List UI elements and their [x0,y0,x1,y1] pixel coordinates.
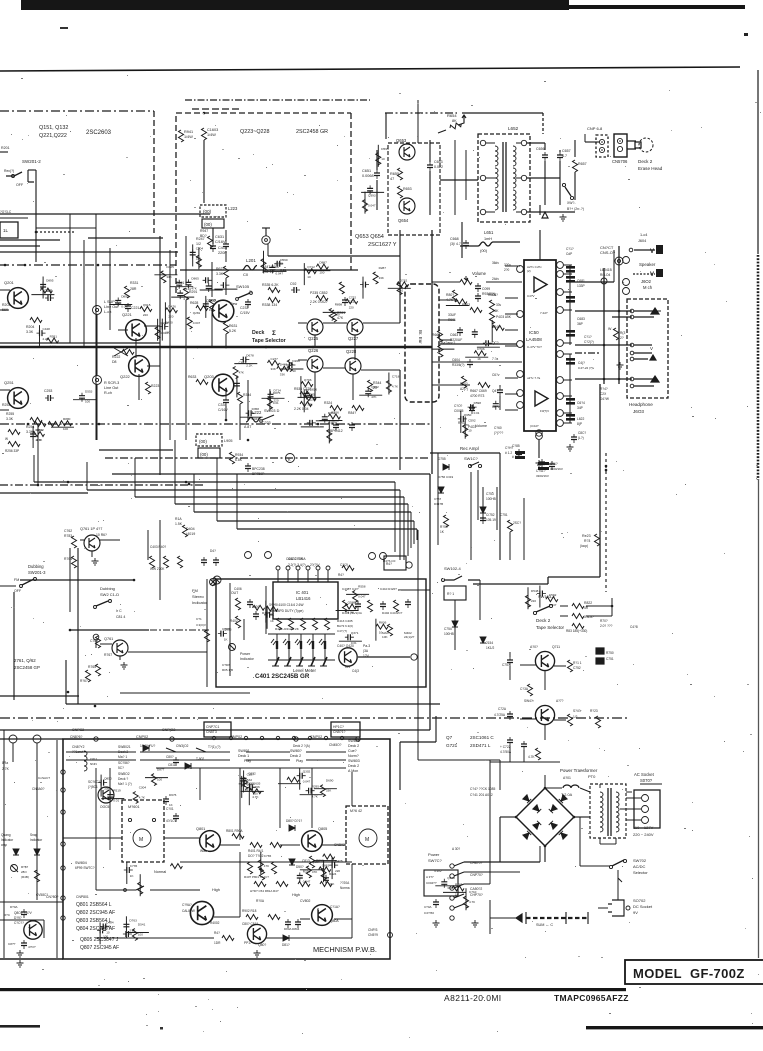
scan speckle noise [247,221,248,222]
block Q223-Q228 dashed box [176,113,351,293]
svg-text:6.8K: 6.8K [235,458,243,462]
svg-text:OFF: OFF [16,183,24,187]
transistor Q654 [399,198,415,214]
svg-text:D891: D891 [121,295,129,299]
svg-text:BPC238: BPC238 [252,467,265,471]
block Q151 right edge [153,111,155,233]
svg-text:C304: C304 [196,246,204,250]
wire selector rows [560,605,568,607]
connector CN5706 solid box [614,134,627,157]
svg-text:BPC412: BPC412 [330,429,343,433]
svg-text:4700 R73: 4700 R73 [470,394,484,398]
svg-text:Q646: Q646 [269,603,277,607]
right border light line lower [758,480,760,958]
wire y214 across [0,213,210,215]
svg-text:R655: R655 [390,172,399,176]
svg-text:R766: R766 [252,785,260,789]
wire thick main line y347 full width [0,346,432,348]
svg-text:R335 6.2K: R335 6.2K [262,283,279,287]
riser x66 for y704 [65,660,67,704]
svg-text:0.047: 0.047 [276,271,284,275]
wire y474 segment [112,473,430,475]
diode D805 pair mid [289,825,295,831]
svg-text:C604: C604 [452,358,460,362]
svg-text:4.7K: 4.7K [36,438,42,442]
MODEL GF-700Z box [625,960,763,984]
capacitor column right of IC [566,266,575,269]
jack pin triangle row3 [651,376,659,382]
svg-text:R(3: R(3 [620,331,625,335]
wires mech top rows [66,751,136,753]
svg-text:R/3-O4: R/3-O4 [600,273,611,277]
svg-text:R SCR-3: R SCR-3 [104,381,119,385]
svg-text:2SC?: 2SC? [513,521,521,525]
svg-text:C656: C656 [536,147,545,151]
svg-text:R413 C405: R413 C405 [337,619,353,623]
svg-text:M: M [139,837,143,843]
svg-text:33K: 33K [166,275,171,279]
svg-text:C304: C304 [139,786,147,790]
capacitor C657 [557,152,563,161]
resistor R801 right of Q801 [232,834,244,839]
wire mid row y862 [180,861,352,863]
svg-text:L622: L622 [577,417,585,421]
svg-text:1K: 1K [224,638,228,642]
svg-text:Speaker: Speaker [639,262,656,267]
svg-text:100: 100 [103,934,108,938]
meter transistor Q403 [339,648,357,666]
svg-text:C428: C428 [43,327,51,331]
transformer secondary coil [616,792,619,812]
svg-text:0.047: 0.047 [193,321,201,325]
svg-text:CNP7C1: CNP7C1 [206,725,219,729]
svg-text:Play: Play [296,759,303,763]
svg-text:0.047: 0.047 [303,780,311,784]
svg-text:(3A: (3A [363,649,369,653]
svg-text:C75?: C75? [502,663,510,667]
wire lower right cluster [509,746,511,762]
svg-text:CAL8?W: CAL8?W [182,909,195,913]
svg-text:R40? P801 TA4C?: R40? P801 TA4C? [244,875,269,879]
svg-text:C403 R40?: C403 R40? [150,545,166,549]
svg-text:2.2K 0.04: 2.2K 0.04 [294,407,309,411]
DC socket symbol [608,900,624,916]
svg-text:H?D? C54 R81A R4?: H?D? C54 R81A R4? [250,889,279,893]
component texture cluster [190,249,196,258]
wires lower cluster [239,404,241,440]
svg-text:R631: R631 [229,324,237,328]
resistor R761 top [183,525,188,537]
svg-text:47K: 47K [371,395,376,399]
capacitor C757 right small squares [596,648,604,664]
svg-text:Q761: Q761 [104,637,113,641]
top bar thin right continuation [560,5,745,9]
wire meter right exit [398,589,430,591]
ground power area [433,920,440,927]
node dot on box B top [203,112,206,115]
svg-text:A?0?: A?0? [530,645,538,649]
svg-text:D865: D865 [191,276,199,280]
svg-text:L652: L652 [508,126,519,131]
svg-text:24dv: 24dv [492,277,499,281]
svg-text:R223: R223 [151,384,159,388]
svg-text:34P: 34P [577,406,584,410]
mech top edge connector circles [94,737,98,741]
wire rows to IC lower pins [432,361,522,363]
capacitor C233 x248 [245,299,251,308]
svg-text:4.7K: 4.7K [446,298,454,302]
svg-text:C277: C277 [271,357,279,361]
corner x600 to selector [548,576,600,578]
svg-text:C233: C233 [240,306,248,310]
svg-text:10: 10 [331,421,335,425]
CN5706 pins [617,138,622,143]
resistor network below Q226 [300,392,312,397]
capacitor row under bus [201,557,207,566]
svg-text:C6?4: C6?4 [577,401,585,405]
long vertical x70 FM [69,548,71,612]
L205 adjust box bottom [196,434,222,446]
svg-text:C8C?: C8C? [578,431,586,435]
svg-text:M?601: M?601 [128,805,140,809]
svg-text:2.7K: 2.7K [2,767,10,771]
bottom-right registration bar [586,1026,763,1029]
svg-text:C4?V: C4?V [527,294,535,298]
svg-text:BA?3 6.3(0): BA?3 6.3(0) [337,624,353,628]
bus wire 7 [237,528,417,530]
svg-text:33K: 33K [280,373,285,377]
ground under Q762 [92,558,99,565]
svg-text:TMAPC0965AFZZ: TMAPC0965AFZZ [554,993,629,1003]
resistor R627 x226 [224,266,229,278]
svg-text:(00): (00) [200,452,208,457]
svg-text:CdP: CdP [566,252,572,256]
component texture cluster [140,307,152,312]
svg-text:R766: R766 [331,411,339,415]
transistor Q851 mech left [98,787,114,803]
wire Q762 connections [80,539,84,541]
svg-text:C752: C752 [349,295,357,299]
left edge box R203-C [0,222,18,238]
svg-text:2761, Q/62: 2761, Q/62 [14,658,36,663]
svg-text:Q226: Q226 [308,348,319,353]
resistor R334 x240 [238,392,243,404]
svg-text:D756 C319: D756 C319 [438,475,454,479]
wire terminal verticals [96,315,98,375]
svg-text:Br. Eur: Br. Eur [418,330,423,344]
svg-text:C710: C710 [469,890,477,894]
svg-text:R293: R293 [303,870,311,874]
resistor R242 top entry [202,128,207,140]
wire dash-dot y458 [105,457,430,459]
svg-text:(00): (00) [203,209,212,214]
svg-text:Deck 2: Deck 2 [290,754,301,758]
motor M601 dashed box [122,800,164,862]
svg-text:C863: C863 [322,863,330,867]
SUM line end ticks [525,912,527,924]
svg-text:C253: C253 [44,389,52,393]
svg-text:D4?: D4? [210,549,216,553]
svg-text:C004??: C004?? [426,881,437,885]
svg-text:(R4B): (R4B) [21,875,29,879]
svg-text:33K: 33K [326,789,331,793]
L652 primary winding [495,146,498,166]
svg-text:cmp: cmp [1,843,7,847]
svg-text:D4?W: D4?W [600,397,609,401]
wire output row 2 [575,310,600,312]
svg-text:2.2K: 2.2K [50,345,56,349]
svg-text:M?6 42: M?6 42 [350,809,362,813]
svg-text:100: 100 [85,400,90,404]
svg-text:Q371: Q371 [351,631,359,635]
wire CN5706 to head [627,140,636,142]
svg-text:R?3: R?3 [584,539,590,543]
svg-text:C631: C631 [215,235,224,239]
wire Q804 connections [300,918,310,920]
wire Q761 conn [100,643,112,645]
svg-text:Normal: Normal [154,870,166,874]
svg-text:8K: 8K [452,119,457,123]
component texture cluster [203,277,212,283]
svg-text:1K1/2: 1K1/2 [486,646,495,650]
resistor R434 pair mid [330,406,342,411]
motor M601 terminals [128,818,131,821]
IC50 opamp triangle lower [535,391,548,406]
svg-text:4?/1CV: 4?/1CV [166,819,178,823]
resistor R40x mid [462,376,467,388]
svg-text:4.7K: 4.7K [392,385,398,389]
ground left edge [17,960,24,967]
resistor R647 top mid [208,236,213,248]
svg-text:J604: J604 [638,239,646,243]
svg-text:Q801 2SB564 L: Q801 2SB564 L [76,902,112,908]
svg-text:SC?56?: SC?56? [118,761,130,765]
mech left column terminals [61,770,65,774]
svg-text:47K: 47K [264,864,269,868]
svg-text:Q203: Q203 [204,374,215,379]
svg-text:33K: 33K [379,276,384,280]
wire Q805 to motor2 [322,844,346,846]
svg-text:D80? D?1?: D80? D?1? [286,819,302,823]
svg-text:Σ: Σ [272,330,276,337]
svg-text:Q653: Q653 [396,138,407,143]
capacitor C653 column [427,162,433,171]
svg-text:CN5706: CN5706 [612,159,628,164]
svg-text:L223: L223 [228,206,238,211]
svg-text:Norm?: Norm? [348,754,359,758]
svg-text:C-4?V ?C?: C-4?V ?C? [527,345,542,349]
svg-text:Ma? 1: Ma? 1 [118,755,127,759]
svg-text:D80A D804: D80A D804 [284,927,300,931]
svg-text:47: 47 [390,177,394,181]
svg-text:C4(3: C4(3 [352,669,359,673]
jack pin triangle row1 [651,308,659,314]
wire into jack row3 [600,378,632,380]
resistor R204 under Q201 [30,318,42,323]
svg-text:3.3K: 3.3K [26,330,34,334]
svg-text:Power: Power [240,652,251,656]
resistor R238 below [230,452,235,464]
svg-text:1K: 1K [477,357,481,361]
resistor R601 column [490,300,495,312]
svg-text:SW4?r: SW4?r [524,699,535,703]
svg-text:Selector: Selector [633,870,648,875]
component texture cluster [493,401,499,410]
resistor R806 row lower [246,915,258,920]
svg-text:220: 220 [531,599,536,603]
svg-text:Q654: Q654 [398,218,409,223]
svg-text:A2(?): A2(?) [460,387,468,391]
svg-text:0.047: 0.047 [549,603,557,607]
capacitor C712 3300 below IC [538,462,549,465]
svg-text:R765: R765 [88,665,96,669]
wire transformer bottom leads [599,838,601,844]
wire vertical from R242 down to L223 [203,140,205,203]
svg-text:C?1A?: C?1A? [330,905,340,909]
bus right droppers [394,482,396,552]
wire bridge bottom down [544,846,546,862]
svg-text:2SC1627 Y: 2SC1627 Y [368,242,397,248]
wire Q403 out right [358,656,410,658]
svg-text:CN5A0?: CN5A0? [32,787,45,791]
svg-text:0.047: 0.047 [121,305,129,309]
resistor R823 right [595,534,600,546]
svg-text:LB1416: LB1416 [296,596,311,601]
svg-text:D8: D8 [112,360,117,364]
IC401 LB1416 box [273,582,338,619]
AC socket pins [642,795,649,802]
svg-text:R255: R255 [6,412,14,416]
svg-text:R324: R324 [324,401,332,405]
svg-text:C/15V: C/15V [240,311,250,315]
transformer box outline [590,784,626,838]
transformer PT701 primary coil [600,792,603,812]
svg-text:High: High [212,888,220,892]
rec amp box outline [430,452,500,454]
capacitor C253 [45,395,54,401]
IC50 bottom pin [536,433,543,440]
svg-text:C?0A: C?0A [424,905,432,909]
svg-text:SW805: SW805 [348,739,360,743]
transistor Q751 [535,651,554,670]
vertical pair x480 500 diodes upper [482,487,484,520]
svg-text:0.2?-22 (?)v: 0.2?-22 (?)v [578,366,595,370]
svg-text:C?1?: C?1? [566,247,574,251]
svg-text:(3)/ 4.7: (3)/ 4.7 [450,242,461,246]
svg-text:R653: R653 [403,187,412,191]
svg-text:Q712: Q712 [307,265,315,269]
svg-text:Q761 1P 4?7: Q761 1P 4?7 [80,527,102,531]
svg-text:R822: R822 [584,601,592,605]
svg-text:CNP02: CNP02 [136,735,148,739]
svg-text:C592: C592 [468,419,476,423]
wire dc socket leads [598,907,608,909]
component texture cluster [40,288,52,293]
svg-text:33K: 33K [307,402,312,406]
svg-text:CNP|O2: CNP|O2 [162,728,175,732]
wire output row 4 [575,378,600,380]
wire bus drop to transformer B+ [542,113,544,134]
svg-text:220: 220 [349,305,354,309]
svg-text:Deck: Deck [252,330,265,336]
svg-text:Norma: Norma [340,886,350,890]
svg-text:2?(?)V: 2?(?)V [310,563,320,567]
svg-text:A 3?7: A 3?7 [426,875,434,879]
coil L223 adjust box [200,205,226,217]
resistor pair on y424 [34,422,46,427]
wire dash-dot y265 [0,264,176,266]
svg-text:C751: C751 [500,513,508,517]
svg-text:Q365: Q365 [307,392,315,396]
svg-text:R947: R947 [200,229,208,233]
bus left risers [33,455,35,482]
svg-text:Q225: Q225 [308,336,319,341]
svg-text:4.7K: 4.7K [312,795,318,799]
wire left power feed x418 [417,713,419,760]
wire top bus solid right [462,112,543,114]
wire left edge bottom stubs [0,901,63,903]
svg-text:BD?: BD? [200,234,207,238]
transistor Q801 [200,831,221,852]
svg-text:C410 R.E5?: C410 R.E5? [380,587,397,591]
svg-text:1K: 1K [169,803,173,807]
svg-text:C657: C657 [562,149,571,153]
svg-text:3.3K: 3.3K [216,272,224,276]
svg-text:Q227: Q227 [348,336,359,341]
vertical line x400 tall [399,230,401,323]
svg-text:Q80A: Q80A [330,919,339,923]
component texture cluster [287,777,299,782]
svg-text:Q281: Q281 [193,311,201,315]
svg-text:0.01: 0.01 [474,411,480,415]
node dots central [225,346,228,349]
switch SW702 symbol [612,860,624,866]
svg-text:C?3A: C?3A [520,687,529,691]
resistor R241 top entry [179,130,184,142]
wire right cap column verticals [569,265,571,345]
wire sum line left [490,917,516,919]
svg-text:C0085: C0085 [454,409,464,413]
svg-text:Q850: Q850 [104,777,112,781]
wire down from bridge to sw702 [574,816,580,818]
svg-text:R901: R901 [448,318,456,322]
diode D801 row [143,745,149,751]
svg-text:7.6K: 7.6K [492,309,499,313]
svg-text:100: 100 [319,271,324,275]
wire y240 segment [0,239,60,241]
meter needle slashes [275,657,279,666]
svg-text:33v: 33v [496,303,502,307]
svg-text:Q151, Q132: Q151, Q132 [39,125,68,131]
svg-text:Deck 2 ?(A): Deck 2 ?(A) [293,744,310,748]
svg-text:D605: D605 [209,298,217,302]
frame right border dashed [757,70,759,254]
svg-text:R?0A: R?0A [256,899,265,903]
capacitor C660 cluster [475,283,481,292]
wire y493 left [0,492,88,494]
svg-text:D595: D595 [381,147,389,151]
resistor R822 selector rows [572,604,584,609]
resistor R654 top [449,122,462,131]
svg-text:2.0? ???: 2.0? ??? [600,624,613,628]
svg-text:R253: R253 [2,403,10,407]
dot top right [744,33,748,36]
svg-text:33K: 33K [104,787,109,791]
svg-text:C683: C683 [577,317,585,321]
svg-text:M: M [365,837,369,843]
resistor R756 below [528,684,533,696]
svg-text:SC?6C1: SC?6C1 [88,780,100,784]
